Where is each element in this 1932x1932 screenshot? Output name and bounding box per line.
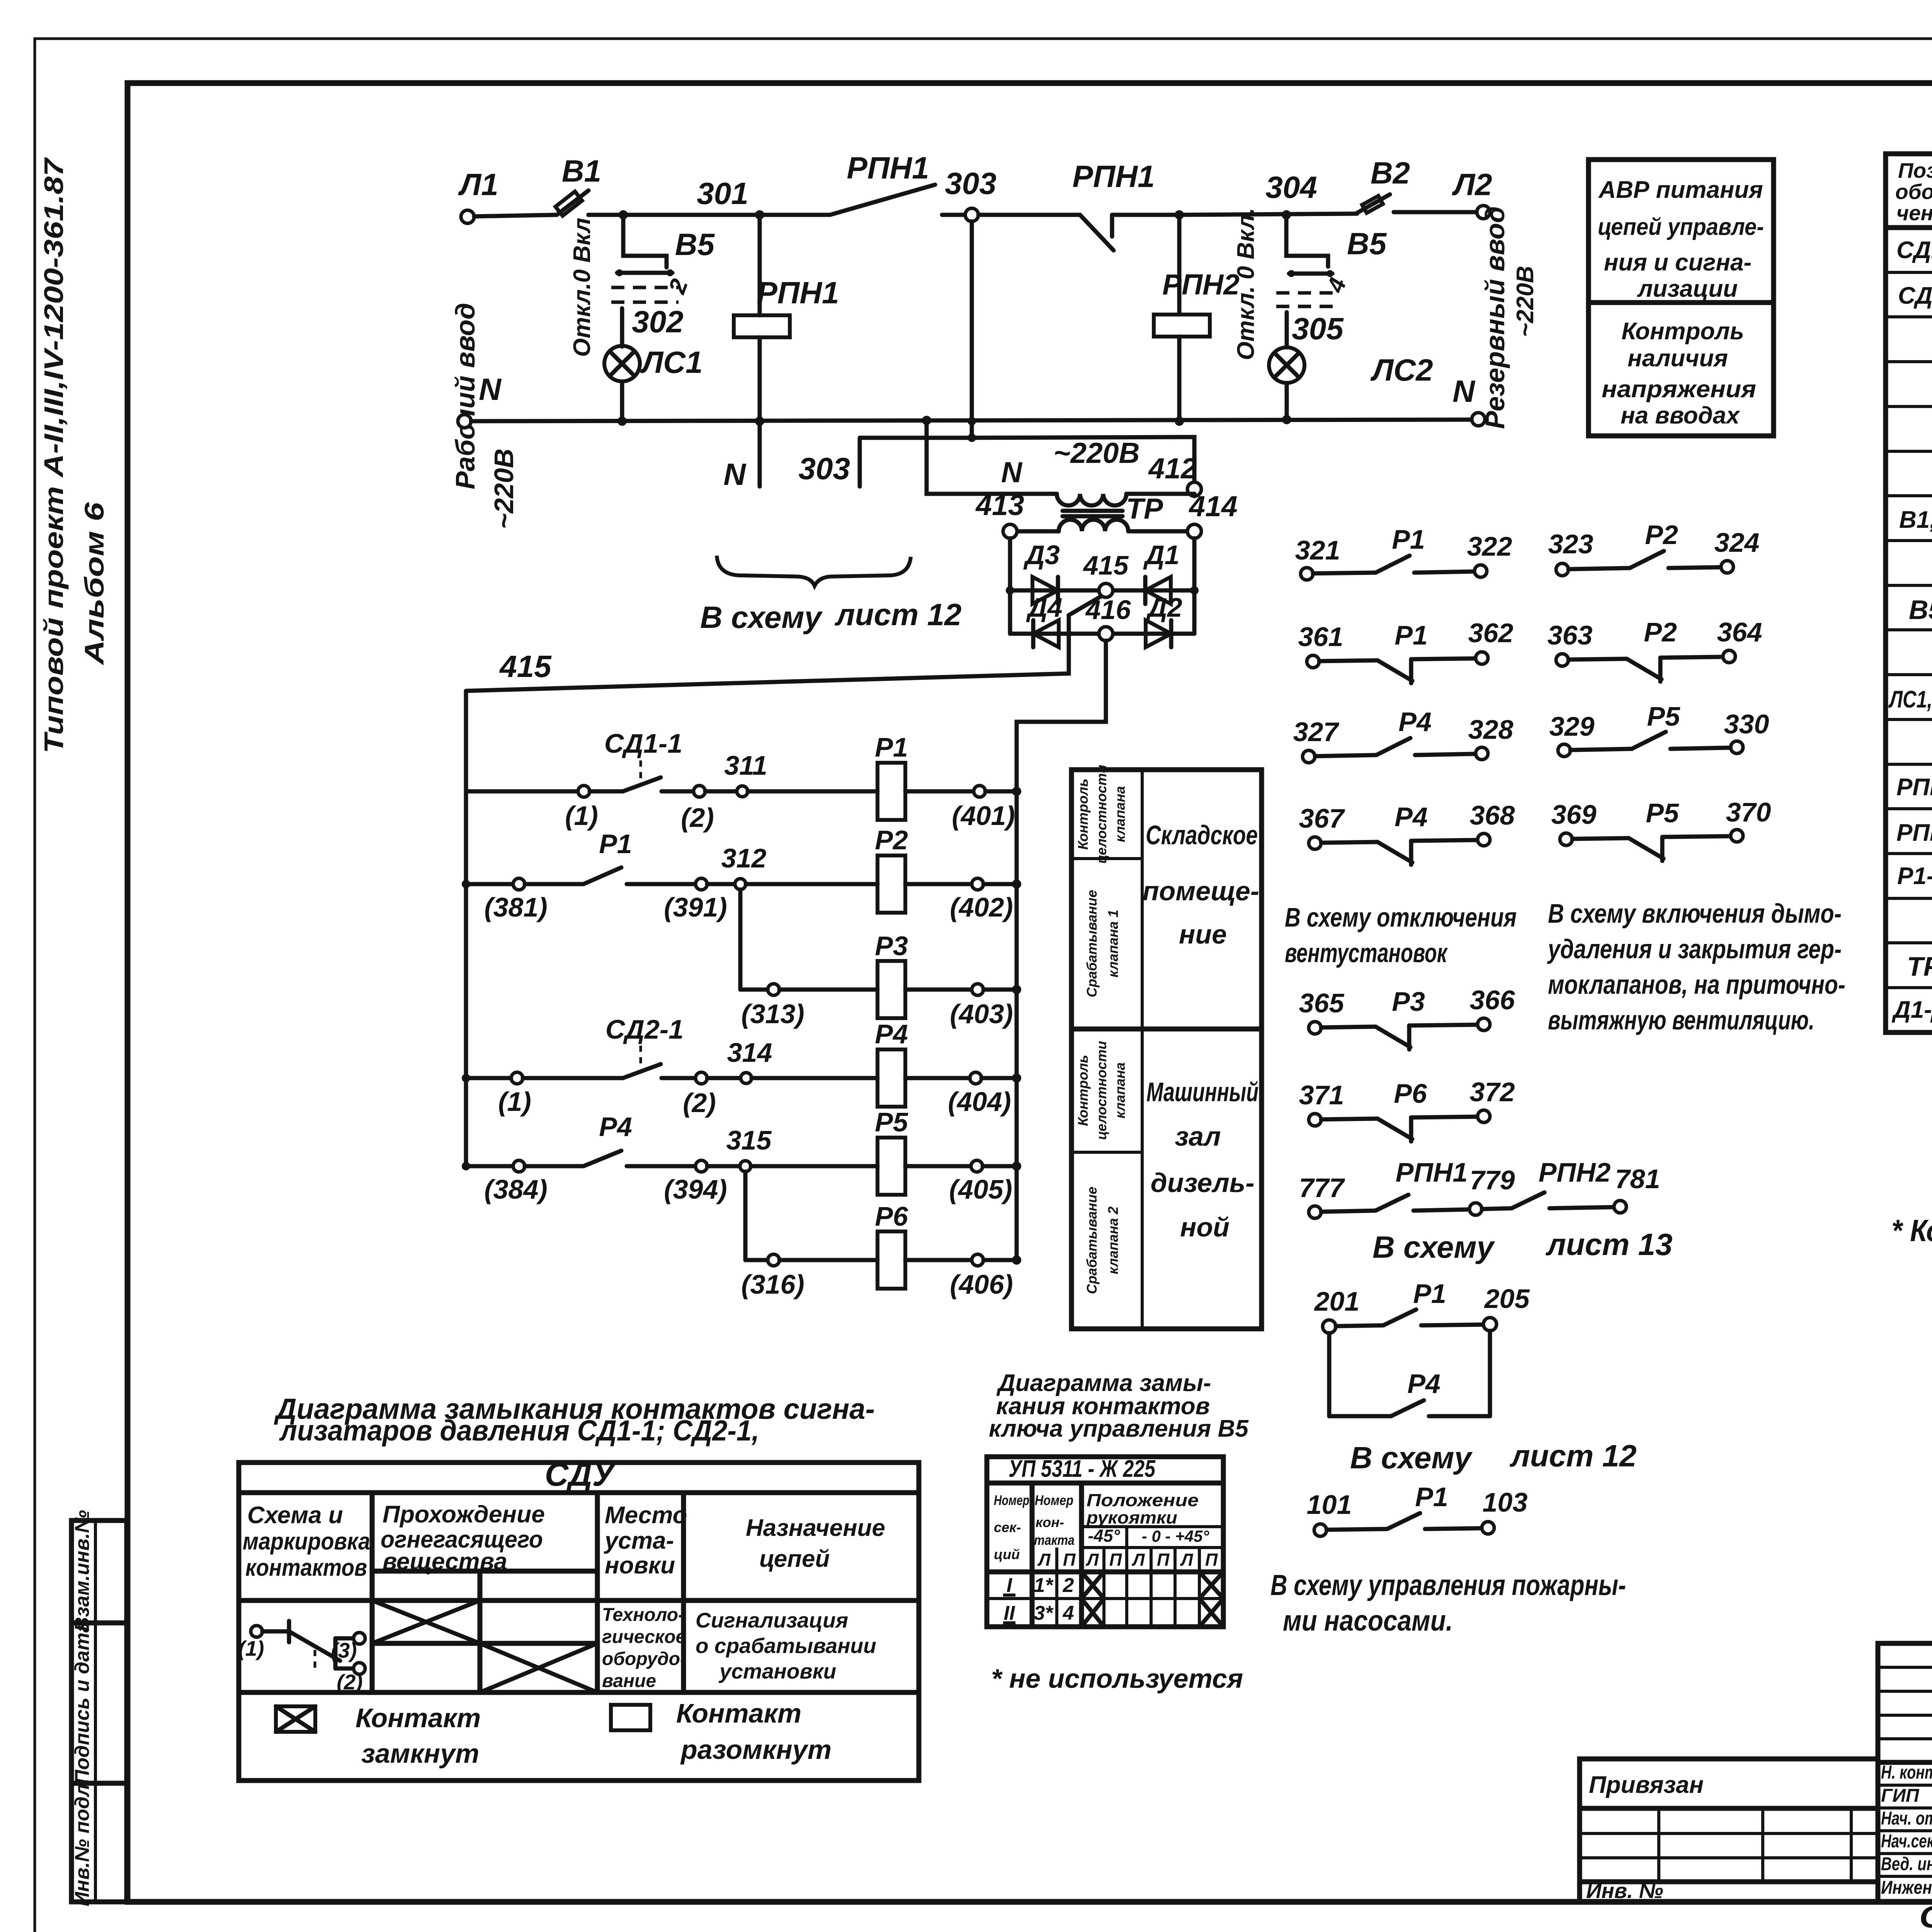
svg-text:(2): (2): [683, 1088, 716, 1118]
svg-text:(1): (1): [565, 801, 598, 831]
svg-text:372: 372: [1470, 1077, 1515, 1107]
svg-text:Р4: Р4: [875, 1019, 908, 1049]
svg-text:365: 365: [1299, 988, 1345, 1018]
svg-text:364: 364: [1717, 617, 1762, 647]
svg-text:РПН1: РПН1: [757, 276, 839, 310]
row РПН2: [1896, 820, 1932, 850]
svg-text:Контроль: Контроль: [1075, 779, 1091, 850]
contact Р5 NC 369-370: [1551, 797, 1771, 861]
svg-text:Альбом 6: Альбом 6: [79, 502, 109, 666]
svg-text:205: 205: [1484, 1284, 1530, 1314]
svg-text:Р3: Р3: [875, 931, 908, 961]
svg-text:клапана 2: клапана 2: [1105, 1206, 1121, 1274]
svg-text:302: 302: [632, 304, 683, 339]
303 stub: [858, 438, 862, 486]
svg-text:зал: зал: [1175, 1121, 1221, 1151]
left bus wire: [464, 691, 468, 1166]
svg-text:вытяжную вентиляцию.: вытяжную вентиляцию.: [1548, 1005, 1815, 1035]
svg-text:N: N: [1452, 374, 1476, 408]
switch B5 section 2: [1233, 208, 1387, 361]
svg-text:Р1-Р6: Р1-Р6: [1897, 863, 1932, 889]
svg-text:В5: В5: [675, 227, 715, 262]
svg-text:304: 304: [1265, 170, 1317, 204]
svg-text:201: 201: [1314, 1286, 1360, 1316]
svg-text:Р5: Р5: [875, 1107, 908, 1137]
contact Р4 NC 367-368: [1299, 800, 1515, 865]
svg-text:(3): (3): [331, 1638, 357, 1662]
svg-text:УП 5311 - Ж 225: УП 5311 - Ж 225: [1009, 1456, 1156, 1482]
svg-text:вентустановок: вентустановок: [1285, 938, 1448, 968]
wire node303 down to transformer feed: [970, 221, 974, 438]
svg-text:замкнут: замкнут: [361, 1738, 479, 1769]
svg-text:гическое: гическое: [602, 1627, 686, 1647]
svg-text:329: 329: [1549, 711, 1595, 742]
svg-text:дизель-: дизель-: [1150, 1168, 1254, 1198]
svg-text:ЛС1: ЛС1: [640, 345, 702, 379]
svg-text:Вед. инж.: Вед. инж.: [1881, 1854, 1932, 1874]
lamp ЛС1: [604, 345, 703, 381]
svg-text:целостности: целостности: [1094, 1041, 1109, 1140]
switch B5 section 1: [569, 211, 715, 357]
contact РПН1 (NC): [1072, 159, 1179, 250]
svg-text:Р1: Р1: [1415, 1482, 1448, 1512]
SDU contact symbol: [238, 1621, 365, 1694]
svg-text:Инв.№ подл.: Инв.№ подл.: [71, 1778, 94, 1906]
svg-text:В1, В2: В1, В2: [1899, 507, 1932, 533]
UP5311 TABLE: [987, 1457, 1223, 1627]
node 303: [965, 208, 978, 221]
svg-text:Л: Л: [1086, 1550, 1099, 1570]
svg-text:Р2: Р2: [875, 825, 908, 855]
svg-text:II: II: [1004, 1602, 1015, 1624]
svg-text:315: 315: [726, 1125, 772, 1155]
svg-text:-45°: -45°: [1088, 1526, 1120, 1546]
wire lamp to N rail: [620, 381, 624, 421]
svg-text:321: 321: [1295, 535, 1340, 565]
svg-text:~220В: ~220В: [1512, 266, 1539, 337]
rung 2: Р1 contact / Р2: [462, 825, 1021, 922]
svg-text:лист 13: лист 13: [1545, 1227, 1672, 1262]
svg-text:312: 312: [721, 843, 767, 873]
svg-text:П: П: [1109, 1550, 1122, 1570]
svg-text:рукоятки: рукоятки: [1086, 1508, 1177, 1527]
svg-text:лист 12: лист 12: [1509, 1439, 1636, 1473]
svg-text:Р6: Р6: [875, 1201, 908, 1231]
svg-text:Резервный ввод: Резервный ввод: [1480, 206, 1510, 429]
parts table header text: [1895, 158, 1932, 225]
coil РПН2 branch: [1154, 215, 1240, 421]
terminal 412: [1187, 482, 1201, 496]
svg-text:Место: Место: [605, 1502, 687, 1529]
wire 415 to ladder left bus: [466, 596, 1101, 691]
rung 4a branch: Р6: [741, 1172, 1021, 1299]
rung 1: СД1-1 / Р1: [466, 728, 1021, 833]
rotated label Рабочий ввод ~220В: [450, 303, 519, 529]
svg-text:Откл. 0 Вкл.: Откл. 0 Вкл.: [1233, 208, 1259, 361]
svg-text:327: 327: [1293, 717, 1340, 747]
svg-text:(316): (316): [741, 1269, 804, 1299]
svg-text:обозна-: обозна-: [1895, 180, 1932, 204]
transformer core: [1063, 509, 1122, 513]
terminal 413: [1003, 524, 1017, 538]
svg-text:Диаграмма замы-: Диаграмма замы-: [996, 1370, 1211, 1396]
svg-text:разомкнут: разомкнут: [680, 1735, 832, 1765]
svg-text:о срабатывании: о срабатывании: [696, 1634, 876, 1658]
svg-text:(404): (404): [948, 1087, 1011, 1117]
wire Л1 to B1: [474, 215, 557, 216]
svg-text:Откл.0 Вкл.: Откл.0 Вкл.: [569, 211, 595, 357]
svg-text:777: 777: [1299, 1173, 1345, 1203]
svg-text:В1: В1: [562, 154, 601, 188]
svg-text:311: 311: [724, 750, 767, 781]
svg-text:Р4: Р4: [1398, 707, 1432, 737]
contact Р1 101-103: [1307, 1482, 1528, 1536]
contact Р2 323-324: [1548, 520, 1760, 576]
left margin stamp box Подпись и дата: [71, 1621, 127, 1784]
svg-text:Инженер: Инженер: [1881, 1878, 1932, 1898]
coil РПН1 branch: [734, 215, 839, 421]
svg-text:ций: ций: [994, 1546, 1020, 1562]
svg-text:412: 412: [1148, 452, 1197, 485]
svg-text:Назначение: Назначение: [746, 1515, 885, 1541]
svg-text:368: 368: [1470, 800, 1515, 830]
svg-text:Типовой проект А-II,III,IV-120: Типовой проект А-II,III,IV-1200-361.87: [39, 157, 69, 753]
svg-text:П: П: [1063, 1550, 1076, 1570]
svg-text:101: 101: [1307, 1490, 1352, 1520]
svg-text:СД1-1: СД1-1: [604, 728, 682, 759]
svg-text:клапана: клапана: [1112, 1062, 1128, 1118]
contact Р1 321-322: [1295, 524, 1512, 580]
left extension of title block: [1580, 1759, 1878, 1903]
svg-text:РПН2: РПН2: [1539, 1157, 1611, 1187]
row I: [1003, 1572, 1223, 1599]
wire to 412: [972, 437, 1194, 482]
svg-text:370: 370: [1726, 797, 1771, 827]
svg-text:Схема и: Схема и: [247, 1502, 343, 1529]
svg-text:Д2: Д2: [1146, 592, 1182, 622]
svg-text:(313): (313): [741, 999, 804, 1029]
svg-text:контактов: контактов: [245, 1554, 367, 1581]
diode Д1: [1143, 540, 1179, 604]
svg-text:Р5: Р5: [1647, 701, 1680, 731]
svg-text:Л: Л: [1132, 1550, 1145, 1570]
svg-text:Л: Л: [1037, 1550, 1051, 1570]
svg-text:Р1: Р1: [875, 732, 908, 762]
svg-text:(391): (391): [664, 892, 727, 922]
wire 303 stub horizontal: [860, 436, 972, 440]
svg-text:Р2: Р2: [1645, 520, 1678, 550]
rotated label Резервный ввод ~220В: [1480, 206, 1539, 429]
svg-text:моклапанов, на приточно-: моклапанов, на приточно-: [1548, 969, 1845, 1000]
svg-text:(406): (406): [950, 1269, 1013, 1299]
diode Д2: [1146, 592, 1182, 647]
svg-text:Нач. отд.: Нач. отд.: [1881, 1808, 1932, 1829]
bridge top rail: [1010, 588, 1194, 593]
svg-text:В2: В2: [1371, 156, 1410, 190]
wire lamp ЛС2 to N rail: [1285, 383, 1289, 420]
svg-text:лизации: лизации: [1637, 276, 1738, 302]
svg-text:Привязан: Привязан: [1589, 1772, 1704, 1798]
svg-text:Р4: Р4: [599, 1112, 632, 1142]
svg-text:Р5: Р5: [1646, 798, 1679, 828]
svg-text:361: 361: [1298, 622, 1344, 652]
svg-text:Взам.инв.№: Взам.инв.№: [71, 1510, 94, 1632]
svg-text:маркировка: маркировка: [243, 1528, 370, 1555]
svg-text:Л1: Л1: [458, 167, 498, 202]
svg-text:Д1: Д1: [1143, 540, 1179, 570]
svg-text:(381): (381): [484, 892, 547, 922]
contact Р2 NC 363-364: [1548, 617, 1762, 682]
row II: [1003, 1599, 1223, 1627]
breaker B1: [556, 154, 602, 216]
contact Р1 NC 361-362: [1298, 618, 1514, 683]
terminal 414: [1187, 524, 1201, 538]
X mark closed cell bottom-right: [480, 1643, 597, 1692]
terminal Л2: [1477, 206, 1490, 219]
svg-text:кон-: кон-: [1036, 1514, 1064, 1530]
svg-text:Р1: Р1: [1413, 1279, 1446, 1309]
wire B5-2 to lamp ЛС2: [1285, 312, 1289, 347]
svg-text:413: 413: [975, 489, 1024, 521]
loop with Р4 contact: [1329, 1331, 1490, 1416]
svg-text:СД2-1: СД2-1: [605, 1014, 684, 1044]
breaker B2: [1357, 156, 1410, 213]
svg-text:цепей управле-: цепей управле-: [1598, 214, 1764, 240]
svg-text:Машинный: Машинный: [1146, 1077, 1259, 1107]
svg-text:N: N: [1001, 456, 1023, 488]
svg-text:Д4: Д4: [1026, 592, 1062, 622]
svg-text:клапана: клапана: [1112, 786, 1128, 842]
svg-text:ключа управления В5: ключа управления В5: [989, 1415, 1249, 1442]
svg-text:322: 322: [1467, 531, 1512, 561]
svg-text:П: П: [1157, 1550, 1170, 1570]
svg-text:Л: Л: [1180, 1550, 1194, 1570]
svg-text:Прохождение: Прохождение: [383, 1501, 545, 1528]
svg-text:В5: В5: [1347, 226, 1387, 261]
junction РПН2 coil: [1175, 210, 1184, 219]
svg-text:Контроль: Контроль: [1621, 318, 1744, 345]
N feed from rail to primary: [922, 416, 1057, 494]
svg-text:вещества: вещества: [383, 1548, 507, 1575]
SDU data row texts: [602, 1605, 876, 1691]
left margin stamp box Взам.инв.№: [71, 1510, 127, 1632]
svg-text:такта: такта: [1034, 1532, 1075, 1548]
svg-text:В схему управления пожарны-: В схему управления пожарны-: [1270, 1569, 1626, 1601]
svg-text:РПН1: РПН1: [847, 151, 929, 185]
svg-text:В схему: В схему: [1350, 1440, 1473, 1475]
svg-text:(402): (402): [950, 892, 1013, 922]
wire 416 to ladder right bus: [1017, 641, 1106, 791]
svg-text:314: 314: [727, 1037, 772, 1068]
wire B5-1 to lamp: [620, 308, 624, 347]
svg-text:~220В: ~220В: [1053, 437, 1139, 469]
svg-text:779: 779: [1470, 1165, 1515, 1195]
N stub below rail (лист 12): [758, 421, 762, 486]
svg-text:лизатаров давления: лизатаров давления СД1-1; СД2-1,: [279, 1414, 759, 1447]
svg-text:Срабатывание: Срабатывание: [1084, 890, 1100, 997]
wire B1 to node301 area: [588, 213, 758, 217]
node 415: [1099, 583, 1113, 597]
svg-text:Номер: Номер: [1035, 1492, 1073, 1508]
left margin stamp box Инв.№ подл.: [71, 1778, 127, 1906]
svg-text:ТР: ТР: [1126, 492, 1163, 525]
svg-text:Рабочий ввод: Рабочий ввод: [450, 303, 480, 490]
svg-text:(1): (1): [238, 1636, 264, 1660]
svg-text:301: 301: [697, 176, 748, 211]
svg-text:Л2: Л2: [1452, 167, 1492, 202]
svg-text:366: 366: [1470, 985, 1515, 1015]
contact Р5 329-330: [1549, 701, 1769, 757]
svg-text:В схему: В схему: [700, 600, 823, 634]
SDU TABLE: [239, 1463, 919, 1781]
rung 2a branch: Р3: [740, 889, 1021, 1029]
svg-text:Поз.: Поз.: [1898, 158, 1932, 182]
UP5311 table texts: [994, 1456, 1218, 1570]
svg-text:Контроль: Контроль: [1075, 1055, 1091, 1126]
svg-text:Р4: Р4: [1395, 802, 1428, 832]
row РПН1: [1896, 772, 1932, 805]
node 304 junction: [1282, 210, 1291, 219]
svg-text:оборудо-: оборудо-: [602, 1649, 686, 1669]
N rail: [458, 372, 1485, 428]
transformer ТР primary winding: [1057, 494, 1126, 505]
svg-text:~220В: ~220В: [489, 449, 519, 529]
svg-text:В схему включения дымо-: В схему включения дымо-: [1548, 898, 1842, 929]
svg-text:ГИП: ГИП: [1881, 1786, 1920, 1806]
svg-text:В схему отключения: В схему отключения: [1285, 902, 1517, 932]
svg-text:чение: чение: [1896, 201, 1932, 225]
svg-text:наличия: наличия: [1628, 345, 1728, 372]
lamp ЛС2: [1269, 347, 1433, 387]
svg-text:СДУ: СДУ: [545, 1456, 617, 1493]
wire to node 304: [1179, 214, 1357, 215]
node junction B5 branch1: [619, 210, 628, 219]
svg-text:ной: ной: [1180, 1212, 1230, 1242]
svg-text:РПН1,: РПН1,: [1896, 774, 1932, 801]
bridge bottom rail: [1010, 632, 1194, 636]
contact Р1 201-205: [1314, 1279, 1530, 1333]
svg-text:416: 416: [1085, 595, 1131, 625]
svg-text:303: 303: [945, 166, 996, 201]
svg-text:3*: 3*: [1034, 1602, 1054, 1624]
bridge left side wire: [1008, 538, 1012, 634]
svg-text:303: 303: [799, 451, 850, 486]
svg-text:330: 330: [1724, 709, 1769, 739]
row ТР: [1907, 946, 1932, 983]
bottom caption: [1919, 1900, 1932, 1932]
svg-text:1*: 1*: [1034, 1574, 1054, 1597]
svg-text:Номер: Номер: [994, 1492, 1029, 1508]
svg-text:323: 323: [1548, 529, 1594, 559]
svg-text:СД1-1*: СД1-1*: [1896, 237, 1932, 264]
svg-text:2: 2: [1063, 1574, 1074, 1597]
svg-text:781: 781: [1615, 1164, 1660, 1194]
wire to РПН1 contact: [758, 213, 830, 217]
svg-text:367: 367: [1299, 803, 1345, 833]
svg-text:ЛС2: ЛС2: [1370, 353, 1433, 387]
svg-text:Д1-Д4: Д1-Д4: [1891, 997, 1932, 1023]
svg-text:новки: новки: [605, 1552, 675, 1579]
contact Р6 NC 371-372: [1299, 1077, 1515, 1141]
SDU header text: [243, 1456, 885, 1581]
svg-text:Контакт: Контакт: [355, 1703, 481, 1733]
svg-text:Р4: Р4: [1407, 1369, 1440, 1399]
annotation table (rooms): [1071, 765, 1262, 1329]
АВР info box: [1588, 160, 1774, 436]
svg-text:4: 4: [1063, 1602, 1074, 1624]
svg-text:П: П: [1205, 1550, 1218, 1570]
svg-text:Подпись и дата: Подпись и дата: [71, 1621, 94, 1784]
svg-text:415: 415: [499, 649, 552, 684]
svg-text:324: 324: [1714, 527, 1760, 558]
svg-text:Сигнализация: Сигнализация: [696, 1608, 848, 1632]
svg-text:удаления и закрытия гер-: удаления и закрытия гер-: [1547, 934, 1842, 964]
junction РПН1 coil: [755, 210, 764, 219]
svg-text:помеще-: помеще-: [1143, 876, 1259, 906]
svg-text:I: I: [1007, 1574, 1013, 1597]
svg-text:вание: вание: [602, 1671, 656, 1691]
svg-text:СД2-1: СД2-1: [1898, 282, 1932, 309]
svg-text:(401): (401): [952, 801, 1015, 831]
svg-text:Сф 783-06 65: Сф 783-06 65: [1919, 1900, 1932, 1932]
svg-text:363: 363: [1548, 620, 1593, 650]
svg-text:369: 369: [1551, 799, 1597, 830]
row СД2-1: [1898, 282, 1932, 313]
svg-text:Складское: Складское: [1146, 820, 1258, 850]
svg-text:ние: ние: [1179, 919, 1227, 949]
svg-text:305: 305: [1292, 311, 1344, 346]
svg-text:Р1: Р1: [599, 829, 632, 859]
contact РПН1 (NO) on main rail: [830, 151, 966, 215]
svg-text:(2): (2): [681, 803, 714, 833]
svg-text:328: 328: [1468, 714, 1514, 745]
signature rows labels: [1881, 1762, 1932, 1898]
curly brace лист 12: [717, 556, 911, 586]
svg-text:Нач.сект.: Нач.сект.: [1881, 1831, 1932, 1852]
svg-text:(394): (394): [664, 1174, 727, 1204]
svg-text:Техноло-: Техноло-: [602, 1605, 684, 1625]
row Р1-Р6: [1897, 861, 1932, 893]
svg-text:АВР питания: АВР питания: [1598, 177, 1763, 203]
row Д1-Д4: [1891, 995, 1932, 1026]
left margin vertical stamp text: [39, 157, 109, 753]
svg-text:Н. контр.: Н. контр.: [1881, 1762, 1932, 1783]
svg-text:Контакт: Контакт: [676, 1698, 801, 1728]
svg-text:Р1: Р1: [1392, 524, 1425, 554]
svg-text:Инв. №: Инв. №: [1586, 1879, 1663, 1903]
svg-text:целостности: целостности: [1094, 765, 1109, 864]
svg-text:(405): (405): [949, 1174, 1012, 1204]
svg-text:Положение: Положение: [1087, 1490, 1199, 1510]
svg-text:* не используется: * не используется: [991, 1663, 1243, 1694]
svg-text:ТР: ТР: [1907, 951, 1932, 981]
row В5: [1909, 595, 1932, 627]
rung 3: СД2-1 / Р4: [462, 1014, 1021, 1118]
svg-text:РПН2: РПН2: [1896, 820, 1932, 846]
rung 4: Р4 contact / Р5: [462, 1107, 1021, 1204]
right bus wire: [1015, 722, 1019, 1260]
wire B2 to Л2: [1394, 210, 1477, 214]
svg-text:N: N: [723, 457, 747, 492]
terminal Л1: [461, 210, 474, 223]
svg-text:(1): (1): [498, 1087, 531, 1117]
svg-text:В схему: В схему: [1372, 1230, 1495, 1264]
svg-text:лист 12: лист 12: [834, 597, 961, 632]
contacts РПН1 РПН2 777-779-781: [1299, 1157, 1660, 1218]
row СД1-1: [1896, 235, 1932, 268]
svg-text:установки: установки: [718, 1659, 836, 1683]
diode Д4: [1026, 592, 1062, 647]
